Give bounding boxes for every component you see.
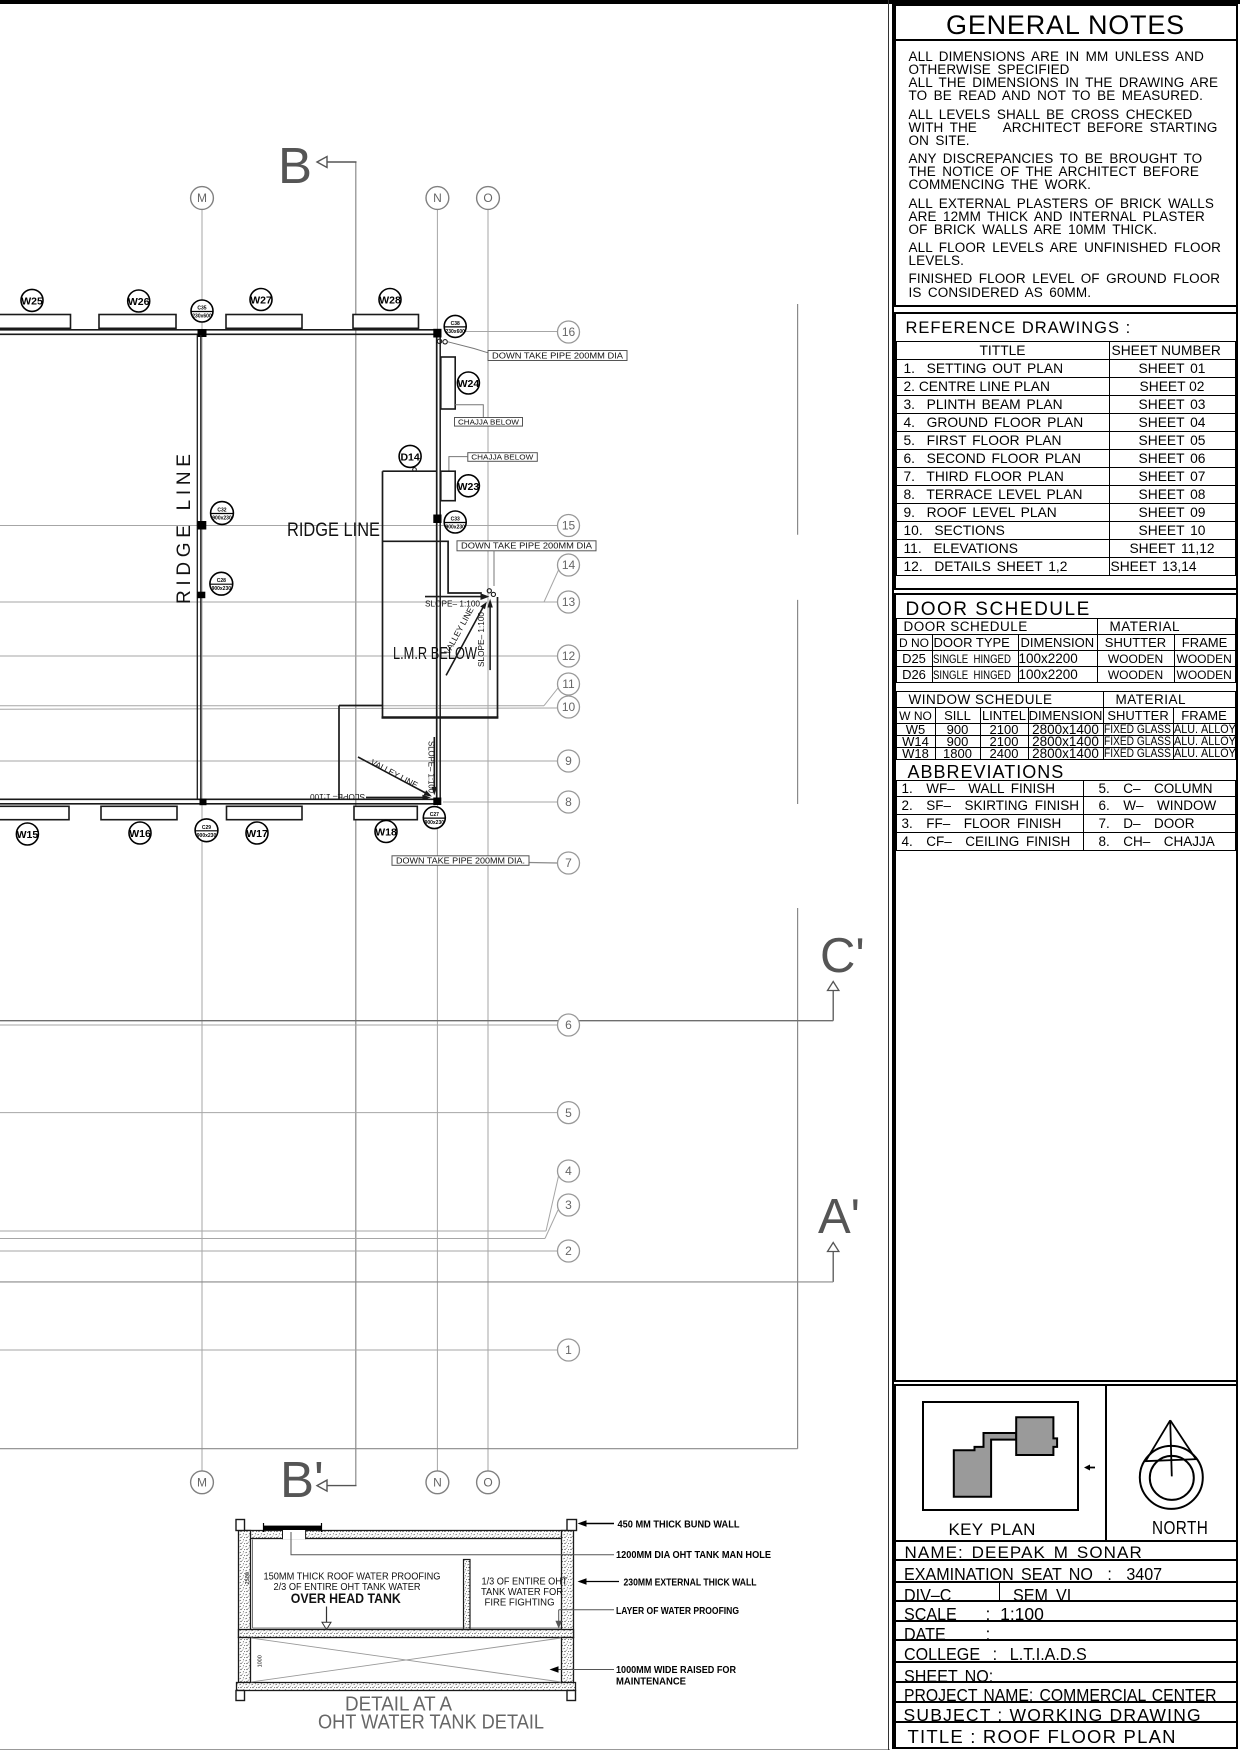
DOOR SCHEDULE box — [894, 593, 1238, 1382]
svg-text:6: 6 — [565, 1018, 572, 1032]
column C38 — [433, 315, 466, 337]
OHT tank left wall — [239, 1531, 251, 1638]
door D14 bubble — [399, 445, 421, 471]
manhole opening — [283, 1530, 306, 1539]
svg-text:B': B' — [280, 1451, 324, 1508]
bottom wall — [0, 799, 441, 804]
svg-text:900x230: 900x230 — [212, 586, 232, 592]
KEY PLAN / NORTH box — [894, 1384, 1238, 1542]
flange top-left — [236, 1520, 245, 1531]
svg-text:W16: W16 — [129, 828, 151, 840]
grid ref line 1 — [0, 1339, 580, 1361]
section line B vertical — [355, 162, 357, 1486]
grid ref line 6 — [0, 1014, 580, 1036]
down pipe fitting mid — [487, 589, 495, 597]
svg-text:W23: W23 — [458, 481, 480, 493]
svg-text:RIDGE LINE: RIDGE LINE — [287, 520, 380, 541]
grid ref line 16 — [450, 321, 580, 343]
svg-text:15: 15 — [562, 519, 576, 533]
window W25 chajja — [0, 315, 71, 329]
window W24 — [441, 357, 455, 409]
grid line N vertical — [436, 210, 438, 1471]
general notes body — [896, 41, 1236, 299]
svg-text:4: 4 — [565, 1164, 572, 1178]
L.M.R step bottom left — [339, 706, 383, 800]
door schedule title — [896, 595, 1236, 618]
svg-text:W28: W28 — [379, 295, 401, 307]
svg-text:VALLEY LINE: VALLEY LINE — [369, 757, 420, 790]
svg-text:D14: D14 — [400, 451, 419, 463]
label W15 — [16, 823, 38, 845]
svg-text:N: N — [433, 191, 442, 205]
svg-text:M: M — [197, 1476, 207, 1490]
svg-text:7: 7 — [565, 856, 572, 870]
right panel outer thin border — [888, 0, 889, 1750]
svg-text:LAYER OF WATER PROOFING: LAYER OF WATER PROOFING — [616, 1605, 739, 1617]
svg-text:RIDGE LINE: RIDGE LINE — [174, 454, 195, 604]
svg-text:450 MM THICK BUND WALL: 450 MM THICK BUND WALL — [618, 1519, 741, 1531]
svg-text:CHAJJA BELOW: CHAJJA BELOW — [471, 453, 534, 462]
grid ref line 7 — [529, 852, 580, 874]
window W18 chajja — [354, 806, 417, 819]
svg-text:SLOPE– 1:100: SLOPE– 1:100 — [425, 599, 480, 609]
title block: project row — [894, 1683, 1238, 1703]
sheet bottom border line — [0, 1749, 890, 1750]
grid ref 11 leader — [0, 673, 580, 706]
svg-text:1: 1 — [565, 1343, 572, 1357]
svg-text:10: 10 — [562, 700, 576, 714]
section label B' bottom — [280, 1451, 357, 1508]
section label A' — [0, 1190, 860, 1282]
down pipe symbol top — [437, 339, 447, 344]
label W17 — [246, 822, 268, 844]
reference drawings table — [896, 341, 1236, 576]
grid ref line 8 — [443, 791, 580, 813]
title block: college row — [894, 1641, 1238, 1663]
svg-text:MAINTENANCE: MAINTENANCE — [616, 1675, 686, 1687]
title block: div/sem row — [894, 1583, 1238, 1603]
svg-text:230x600: 230x600 — [192, 314, 212, 320]
OHT tank floor slab — [239, 1630, 574, 1638]
svg-text:2500: 2500 — [245, 1572, 251, 1584]
down take pipe label 2 — [457, 541, 596, 586]
svg-text:N: N — [433, 1476, 442, 1490]
grid ref line 2 — [0, 1240, 580, 1262]
grid circle N top — [426, 187, 449, 210]
svg-text:C35: C35 — [197, 306, 206, 312]
window W28 chajja — [353, 315, 419, 329]
manhole cover bar — [264, 1523, 322, 1532]
label 450mm bund wall — [578, 1519, 741, 1531]
label 230mm wall — [578, 1577, 757, 1589]
svg-text:DOWN TAKE PIPE 200MM DIA: DOWN TAKE PIPE 200MM DIA — [492, 350, 623, 360]
svg-text:2: 2 — [565, 1244, 572, 1258]
svg-text:DOWN TAKE PIPE 200MM DIA.: DOWN TAKE PIPE 200MM DIA. — [396, 855, 525, 865]
valley line upper diagonal — [442, 602, 487, 676]
column C33 — [433, 511, 466, 533]
top wall — [0, 330, 441, 335]
down take pipe label 1 — [488, 350, 627, 360]
manhole leader — [291, 1532, 614, 1555]
abbreviations table — [896, 780, 1236, 851]
title block: title row — [894, 1723, 1238, 1749]
title block: name row — [894, 1542, 1238, 1562]
grid circle O bottom — [477, 1471, 500, 1494]
svg-text:900x230: 900x230 — [197, 833, 217, 839]
wall N vertical — [437, 338, 441, 800]
svg-text:12: 12 — [562, 649, 576, 663]
label W24 — [457, 372, 479, 394]
window W17 chajja — [227, 806, 303, 819]
svg-text:C': C' — [820, 929, 865, 983]
label W27 — [250, 289, 272, 311]
column C29 — [195, 799, 218, 842]
GENERAL NOTES box — [894, 4, 1238, 307]
sheet top border bar — [0, 0, 1240, 4]
key plan footprint — [922, 1401, 1079, 1511]
svg-text:16: 16 — [562, 325, 576, 339]
window schedule table — [896, 691, 1236, 760]
svg-text:C33: C33 — [451, 517, 460, 523]
PLAN SVG — [0, 0, 888, 1753]
column C27 — [423, 798, 445, 829]
svg-text:1000: 1000 — [258, 1655, 264, 1667]
ridge line vertical double — [197, 335, 201, 799]
column C28 — [197, 572, 232, 598]
svg-text:230MM EXTERNAL THICK WALL: 230MM EXTERNAL THICK WALL — [624, 1577, 757, 1589]
label layer of water proofing — [555, 1605, 739, 1629]
grid ref line 10 — [0, 696, 580, 718]
window W26 chajja — [99, 315, 176, 329]
grid ref 14 leader — [544, 554, 580, 602]
key plan frame — [922, 1401, 1079, 1511]
svg-text:5: 5 — [565, 1106, 572, 1120]
svg-text:900x230: 900x230 — [212, 516, 232, 522]
bottom slab — [237, 1683, 576, 1691]
svg-text:9: 9 — [565, 754, 572, 768]
down pipe leader top — [448, 342, 488, 353]
general notes title — [896, 6, 1236, 41]
svg-text:W18: W18 — [375, 827, 397, 839]
svg-text:CHAJJA BELOW: CHAJJA BELOW — [458, 417, 520, 426]
REFERENCE DRAWINGS box — [894, 312, 1238, 590]
window W23 — [441, 471, 455, 501]
slope arrow bottom horizontal — [310, 792, 431, 802]
svg-text:W24: W24 — [458, 378, 480, 390]
flange bottom-right — [567, 1691, 576, 1701]
chajja below label 1 — [455, 405, 523, 427]
svg-text:DOWN TAKE PIPE 200MM DIA: DOWN TAKE PIPE 200MM DIA — [461, 541, 592, 551]
slope arrow top — [425, 593, 489, 608]
chajja below label 2 — [449, 453, 537, 471]
flange bottom-left — [236, 1691, 245, 1701]
grid ref 4 leader — [0, 1160, 580, 1231]
grid circle N bottom — [426, 1471, 449, 1494]
svg-text:1200MM DIA OHT TANK MAN HOLE: 1200MM DIA OHT TANK MAN HOLE — [616, 1549, 771, 1561]
slope arrow bottom vertical — [427, 737, 438, 795]
svg-text:C28: C28 — [217, 578, 226, 584]
svg-text:8: 8 — [565, 795, 572, 809]
title block: exam seat row — [894, 1561, 1238, 1583]
svg-text:W26: W26 — [128, 296, 150, 308]
svg-text:L.M.R BELOW: L.M.R BELOW — [393, 643, 477, 663]
section line C vertical segments — [797, 304, 799, 1449]
svg-text:13: 13 — [562, 595, 576, 609]
svg-text:B: B — [278, 137, 312, 194]
right panel thick border — [892, 2, 1238, 1749]
reference drawings title — [896, 314, 1236, 341]
title block: scale row — [894, 1602, 1238, 1622]
svg-text:SLOPE– 1:100: SLOPE– 1:100 — [476, 612, 486, 667]
svg-text:C32: C32 — [217, 508, 226, 514]
grid circle M bottom — [191, 1471, 214, 1494]
north caption — [1152, 1518, 1208, 1539]
svg-text:900x230: 900x230 — [445, 525, 465, 531]
svg-text:A': A' — [818, 1190, 860, 1244]
north symbol — [1136, 1414, 1216, 1514]
svg-text:OHT WATER TANK DETAIL: OHT WATER TANK DETAIL — [318, 1711, 544, 1734]
label W16 — [129, 822, 151, 844]
window W16 chajja — [101, 806, 177, 819]
section label C' — [0, 929, 865, 1021]
maintenance cross brace — [251, 1638, 561, 1682]
svg-text:M: M — [197, 191, 207, 205]
grid ref line 12 — [0, 645, 580, 667]
L.M.R outline top — [382, 471, 499, 717]
svg-text:OVER HEAD TANK: OVER HEAD TANK — [291, 1591, 401, 1606]
window W27 chajja — [226, 315, 302, 329]
key plan caption — [949, 1520, 1036, 1540]
svg-text:C29: C29 — [202, 825, 211, 831]
svg-text:O: O — [483, 191, 492, 205]
grid circle M top — [191, 187, 214, 210]
waterproofing lining — [253, 1540, 562, 1629]
maintenance left wall — [239, 1638, 251, 1683]
grid line M vertical — [201, 210, 203, 1471]
grid ref line 5 — [0, 1102, 580, 1124]
down take pipe label 3 — [392, 855, 529, 865]
section label B top — [278, 137, 357, 194]
key plan / north divider — [1105, 1386, 1107, 1540]
label W26 — [128, 290, 150, 312]
grid ref 3 leader — [0, 1194, 580, 1239]
grid ref line 15 — [0, 515, 580, 537]
svg-text:900x230: 900x230 — [425, 820, 445, 826]
grid circle O top — [477, 187, 500, 210]
svg-text:230x600: 230x600 — [445, 329, 465, 335]
svg-text:SLOPE– 1:100: SLOPE– 1:100 — [310, 792, 365, 802]
column C32 — [197, 502, 233, 530]
interior wall edge at D14 — [383, 470, 437, 472]
grid ref line 13 — [0, 591, 580, 613]
svg-text:1000MM WIDE RAISED FOR: 1000MM WIDE RAISED FOR — [616, 1664, 736, 1676]
OHT tank right wall — [562, 1531, 574, 1638]
OHT tank divider wall — [464, 1560, 471, 1630]
label 1000mm raised — [550, 1664, 737, 1688]
svg-text:C38: C38 — [451, 321, 460, 327]
svg-text:W27: W27 — [250, 295, 272, 307]
grid ref line 9 — [0, 750, 580, 772]
window W15 chajja — [0, 806, 69, 819]
grid line O vertical — [487, 210, 489, 1471]
abbreviations title — [896, 760, 1236, 780]
svg-text:3: 3 — [565, 1198, 572, 1212]
title block: sheet no row — [894, 1663, 1238, 1684]
svg-text:FIRE FIGHTING: FIRE FIGHTING — [485, 1596, 555, 1608]
label W28 — [379, 289, 401, 311]
OHT tank top bund wall — [243, 1531, 570, 1539]
svg-text:W25: W25 — [21, 295, 43, 307]
title block: date row — [894, 1622, 1238, 1642]
svg-text:14: 14 — [562, 558, 576, 572]
column C35 — [191, 300, 213, 337]
svg-text:O: O — [483, 1476, 492, 1490]
svg-text:C27: C27 — [430, 812, 439, 818]
slope arrow right vertical — [476, 599, 493, 670]
tank down arrow — [322, 1607, 331, 1630]
flange top-right — [567, 1520, 577, 1531]
valley line lower diagonal — [358, 757, 432, 797]
plan area bottom boundary — [0, 1448, 798, 1450]
maintenance right wall — [562, 1638, 574, 1683]
svg-text:W17: W17 — [246, 828, 268, 840]
svg-text:11: 11 — [562, 677, 575, 691]
svg-text:W15: W15 — [17, 829, 39, 841]
label W18 — [375, 821, 397, 843]
key plan pointer arrow — [1084, 1464, 1096, 1471]
door schedule table — [896, 618, 1236, 683]
svg-text:SLOPE– 1:100: SLOPE– 1:100 — [427, 741, 437, 793]
label W25 — [21, 289, 43, 311]
title block: subject row — [894, 1703, 1238, 1724]
label W23 — [457, 475, 479, 497]
